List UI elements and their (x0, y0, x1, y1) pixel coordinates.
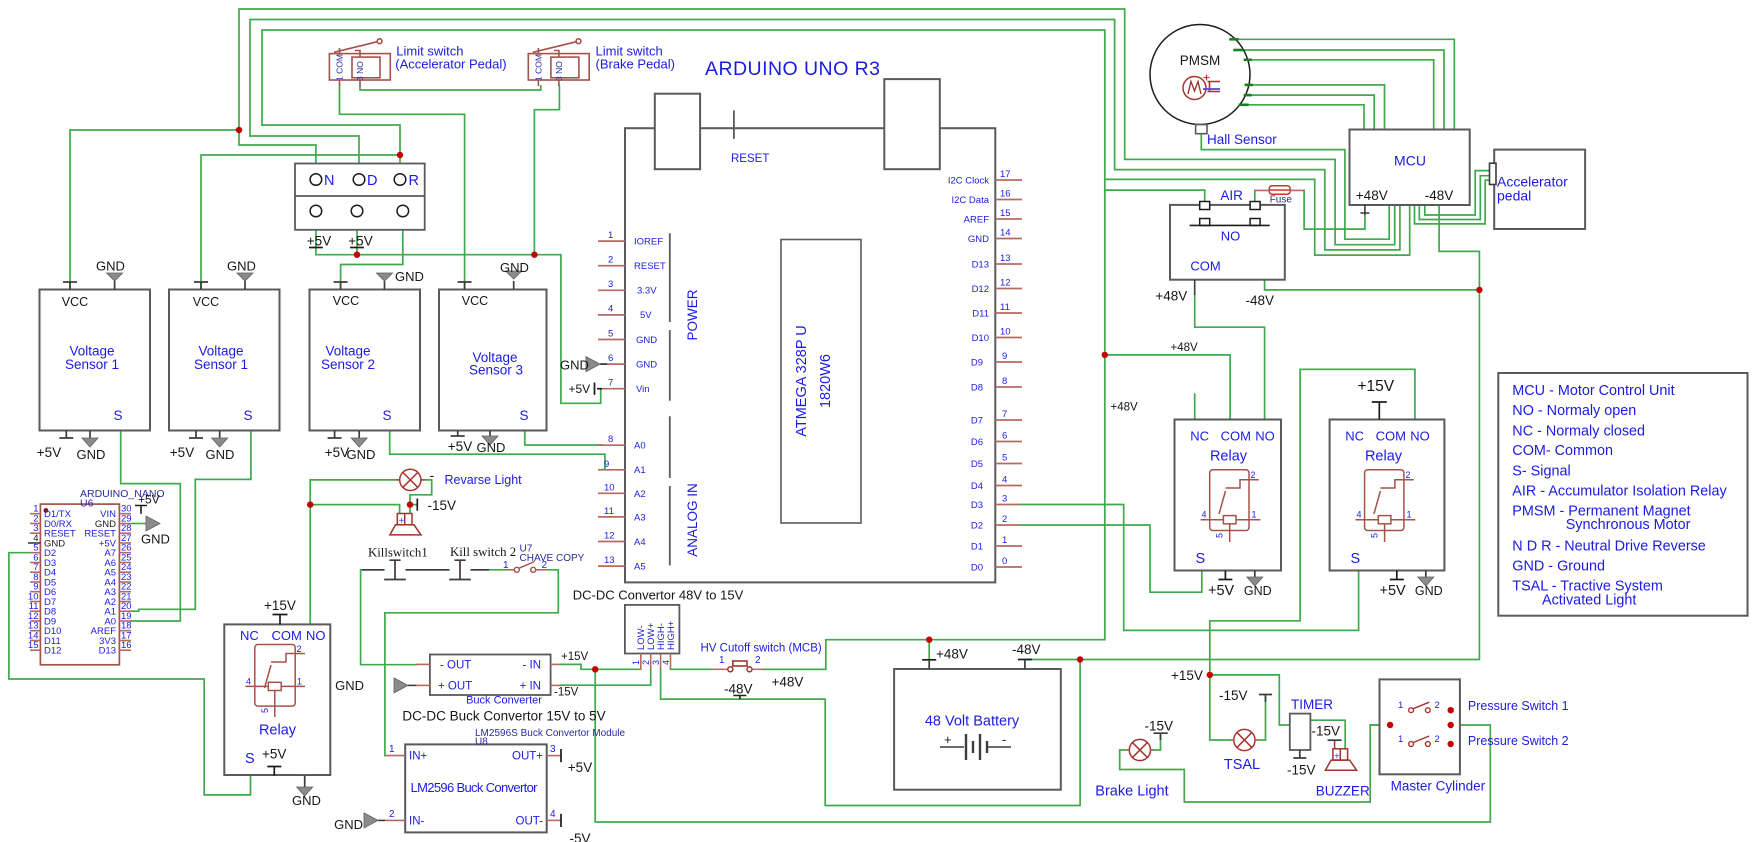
wire limit switch1 NO to switch2 COM (360, 86, 541, 90)
48 volt battery box (894, 669, 1061, 790)
uno right pin labels (948, 176, 990, 574)
svg-text:S: S (113, 408, 122, 423)
wire battery plus stem (928, 640, 930, 660)
svg-text:2: 2 (755, 655, 761, 666)
GND symbol below relay1 (297, 776, 313, 796)
svg-text:+5V: +5V (1380, 583, 1407, 599)
svg-text:I2C Data: I2C Data (952, 195, 990, 206)
accelerator pedal box (1494, 150, 1585, 229)
wire PMSM phase2 to MCU (1244, 50, 1444, 130)
svg-text:GND: GND (347, 447, 376, 462)
svg-text:D10: D10 (972, 333, 989, 344)
wire nano D2 to relay1 S (9, 553, 251, 795)
svg-text:DC-DC Buck Convertor 15V to 5V: DC-DC Buck Convertor 15V to 5V (402, 709, 605, 724)
wire +48V bus branch to AIR terminal1 (1105, 190, 1205, 203)
svg-text:2: 2 (1435, 700, 1440, 711)
uno right pin stubs (995, 180, 1022, 567)
svg-text:S: S (1196, 551, 1206, 567)
voltage sensor 3 box (310, 290, 421, 431)
relay2 symbol (1201, 470, 1261, 542)
wire killswitch2 to U7 (471, 569, 507, 571)
svg-text:+15V: +15V (264, 598, 296, 613)
svg-text:1820W6: 1820W6 (818, 354, 834, 408)
sensor2 VCC pin (194, 282, 208, 290)
wire DC-DC pin2 to buck +IN (560, 669, 650, 685)
svg-text:LM2596 Buck Convertor: LM2596 Buck Convertor (411, 780, 539, 795)
svg-text:GND: GND (477, 440, 506, 455)
svg-text:NC - Normaly closed: NC - Normaly closed (1512, 424, 1645, 440)
-48V tick on wire (733, 696, 746, 700)
wire U7 pin2 to LM2596 IN+ (385, 570, 558, 756)
TIMER box (1290, 714, 1311, 750)
junction dot +5V brake switch (531, 252, 537, 258)
+5V flag at uno Vin (595, 383, 603, 395)
-15V flag at brake light (1153, 733, 1167, 740)
svg-text:IN+: IN+ (409, 751, 428, 763)
svg-text:AIR - Accumulator Isolation Re: AIR - Accumulator Isolation Relay (1512, 484, 1727, 500)
svg-text:5: 5 (260, 708, 270, 713)
svg-text:OUT-: OUT- (516, 816, 544, 828)
GND flag at buck +OUT (394, 678, 416, 693)
svg-text:GND: GND (334, 817, 363, 832)
uno right pin numbers (1000, 169, 1011, 567)
GND flag at LM2596 IN- (364, 813, 385, 828)
voltage sensor 4 box (439, 290, 547, 431)
svg-text:3: 3 (550, 744, 556, 755)
relay1 symbol (245, 645, 305, 718)
relay3 GND symbol below (1418, 571, 1434, 587)
svg-text:U6: U6 (80, 498, 94, 510)
svg-text:A5: A5 (634, 562, 646, 573)
svg-text:2: 2 (389, 809, 395, 820)
svg-text:+5V: +5V (262, 747, 286, 762)
svg-text:NC: NC (1190, 429, 1209, 444)
svg-text:14: 14 (1000, 228, 1011, 239)
PMSM circle (1150, 25, 1250, 125)
svg-text:1: 1 (1398, 700, 1403, 711)
svg-text:ATMEGA 328P U: ATMEGA 328P U (794, 325, 810, 436)
svg-text:+48V: +48V (1171, 342, 1199, 354)
wire sensor2 VCC to R junction (201, 155, 400, 288)
svg-text:1 COM: 1 COM (534, 54, 544, 81)
+5V bar inside relay1 (267, 767, 281, 776)
GND flag at nano pin29 (131, 516, 160, 531)
svg-text:pedal: pedal (1497, 188, 1531, 204)
switch U7 (507, 562, 547, 573)
svg-text:GND: GND (77, 447, 106, 462)
wire reverse light lamp minus to -15V and speaker pin2 (410, 480, 432, 513)
+5V power bar NDR1 (309, 247, 323, 249)
svg-text:17: 17 (1000, 169, 1011, 180)
nano pin4 GND stub black (28, 542, 40, 544)
svg-text:+48V: +48V (1155, 289, 1187, 304)
svg-text:GND - Ground: GND - Ground (1512, 559, 1605, 575)
sensor1 GND symbol bottom (82, 438, 98, 447)
svg-text:+5V: +5V (138, 493, 160, 507)
svg-text:Relay: Relay (259, 723, 297, 739)
svg-text:R: R (409, 173, 419, 189)
arduino uno USB connector (655, 94, 700, 170)
svg-text:2: 2 (608, 255, 613, 266)
svg-text:IN-: IN- (409, 816, 425, 828)
svg-text:10: 10 (1000, 327, 1011, 338)
hall sensor square (1196, 125, 1207, 134)
svg-text:5V: 5V (640, 310, 652, 321)
wire busC top (+48V bus) (262, 30, 1105, 669)
svg-text:HV Cutoff switch (MCB): HV Cutoff switch (MCB) (701, 643, 822, 655)
relay2 +5V flag below (1218, 571, 1232, 580)
wire TSAL right to -15V flag (1255, 698, 1266, 741)
svg-text:(Accelerator Pedal): (Accelerator Pedal) (395, 57, 506, 72)
svg-text:COM: COM (272, 628, 302, 643)
wire +5V net NDR to UNO Vin (316, 217, 601, 404)
svg-text:Relay: Relay (1365, 449, 1403, 465)
svg-text:Kill switch 2: Kill switch 2 (450, 545, 516, 559)
svg-text:-15V: -15V (1219, 688, 1248, 703)
sensor1 GND symbol top (107, 273, 123, 281)
sensor1 GND pin bottom (89, 431, 91, 439)
junction dot R column (397, 152, 403, 158)
wire NDR bottom2 +5V stem (356, 217, 358, 255)
svg-text:6: 6 (608, 353, 613, 364)
svg-text:8: 8 (1002, 376, 1007, 387)
wire pedal W1 to MCU pin G (1425, 171, 1490, 215)
uno power group bar (669, 233, 671, 401)
AIR terminals (1200, 202, 1260, 226)
svg-text:D13: D13 (972, 260, 989, 271)
svg-text:Brake Light: Brake Light (1095, 784, 1168, 800)
reverse light speaker symbol (390, 514, 421, 535)
svg-text:15: 15 (28, 640, 39, 651)
svg-text:A1: A1 (634, 465, 646, 476)
svg-text:ARDUINO UNO R3: ARDUINO UNO R3 (705, 58, 880, 80)
svg-text:A4: A4 (634, 537, 646, 548)
svg-text:+ OUT: + OUT (438, 681, 472, 693)
svg-text:1 COM: 1 COM (335, 54, 345, 81)
svg-text:+: + (1334, 752, 1340, 763)
atmega inner box (781, 240, 861, 524)
wire fuse right to MCU +48V pin (1304, 190, 1365, 229)
svg-text:-48V: -48V (724, 682, 753, 697)
svg-text:+5V: +5V (325, 445, 349, 460)
sensor3 GND symbol bottom (351, 438, 367, 447)
AIR COM pin (1194, 280, 1196, 295)
wire TIMER right to buzzer (1310, 720, 1346, 749)
svg-text:Hall Sensor: Hall Sensor (1207, 132, 1277, 147)
svg-text:Sensor 2: Sensor 2 (321, 357, 375, 372)
svg-text:+5V: +5V (170, 445, 194, 460)
uno left pin numbers (604, 230, 615, 566)
svg-text:GND: GND (95, 519, 116, 530)
svg-text:Master Cylinder: Master Cylinder (1391, 779, 1486, 794)
svg-text:7: 7 (1002, 409, 1007, 420)
svg-text:A2: A2 (634, 489, 646, 500)
svg-text:5: 5 (1215, 533, 1225, 538)
sensor2 GND pin bottom (219, 431, 221, 439)
svg-text:(Brake Pedal): (Brake Pedal) (596, 57, 675, 72)
svg-text:+5V: +5V (569, 382, 591, 396)
wire +48V bus branch y179.5 to MCU pin D (1105, 179, 1410, 255)
voltage sensor 1 box (40, 290, 151, 431)
wire PMSM phase3 to MCU (1252, 60, 1434, 130)
svg-text:S: S (519, 408, 528, 423)
svg-text:9: 9 (604, 459, 609, 470)
MCU +48V pin stub (1360, 205, 1369, 215)
svg-text:+5V: +5V (568, 760, 592, 775)
svg-text:GND: GND (636, 360, 657, 371)
+5V flag at nano VIN (135, 506, 147, 514)
master cylinder box (1380, 679, 1460, 774)
PMSM motor plus/minus (1204, 75, 1210, 81)
svg-text:+5V: +5V (37, 445, 61, 460)
arduino nano body (40, 504, 119, 665)
junction dot master cylinder left (1387, 722, 1393, 728)
wire brake light to master cylinder (1120, 725, 1381, 802)
killswitch lead segments gray (362, 569, 489, 571)
svg-text:S: S (1351, 551, 1361, 567)
svg-text:D1: D1 (971, 542, 983, 553)
svg-text:S: S (245, 751, 255, 767)
svg-text:GND: GND (141, 532, 170, 547)
svg-text:2: 2 (542, 560, 548, 571)
svg-text:Relay: Relay (1210, 449, 1248, 465)
wire PMSM hall1 to MCU (1253, 85, 1385, 130)
svg-text:-5V: -5V (569, 831, 590, 842)
svg-text:N D R - Neutral Drive Reverse: N D R - Neutral Drive Reverse (1512, 539, 1706, 555)
killswitch2 symbol (449, 560, 471, 579)
svg-text:ANALOG IN: ANALOG IN (685, 483, 700, 557)
svg-text:13: 13 (1000, 253, 1011, 264)
wire sensor2 S to nano A1 (131, 431, 251, 612)
sensor3 GND pin top (384, 281, 386, 290)
svg-text:+48V: +48V (1356, 188, 1388, 203)
sensor4 VCC pin (458, 282, 472, 290)
battery pins into box (929, 660, 1025, 670)
junction dot +48V relay2 (1102, 352, 1108, 358)
svg-text:Sensor 1: Sensor 1 (194, 357, 248, 372)
svg-text:4: 4 (608, 304, 613, 315)
svg-text:+15V: +15V (1171, 668, 1203, 683)
svg-text:+5V: +5V (307, 234, 331, 249)
PMSM motor icon (1183, 77, 1220, 100)
svg-text:1: 1 (1398, 734, 1403, 745)
junction dot -48V right (1476, 287, 1482, 293)
nano left labels (44, 509, 76, 657)
arduino uno power jack (884, 79, 940, 169)
svg-text:GND: GND (1244, 584, 1272, 598)
junction dot +5V bar2 (354, 252, 360, 258)
svg-text:A3: A3 (634, 513, 646, 524)
sensor4 GND pin bottom (489, 431, 491, 437)
svg-text:AIR: AIR (1220, 188, 1243, 203)
wire PMSM hall3 to MCU (1249, 105, 1364, 130)
svg-text:GND: GND (96, 259, 125, 274)
junction dot DC-DC pin1 (592, 666, 598, 672)
sensor2 +5V pin bottom (189, 431, 203, 439)
sensor1 +5V pin bottom (59, 431, 73, 439)
svg-text:4: 4 (550, 809, 556, 820)
wire busA top (N net to MCU pin A) (239, 9, 1395, 245)
svg-text:2: 2 (1251, 470, 1256, 480)
wire +15V junction to TIMER (1210, 675, 1291, 725)
sensor2 GND symbol bottom (212, 438, 228, 447)
svg-text:D0: D0 (971, 563, 983, 574)
svg-text:GND: GND (292, 793, 321, 808)
DC-DC 48 to 15 block (625, 605, 680, 654)
voltage sensor 2 box (169, 290, 280, 431)
junction dot battery minus bus (1077, 656, 1083, 662)
svg-text:-: - (430, 467, 435, 483)
svg-text:LM2596S Buck Convertor Module: LM2596S Buck Convertor Module (475, 728, 626, 739)
svg-text:HIGH+: HIGH+ (666, 620, 677, 650)
NDR circle bottom1 (310, 205, 322, 217)
nano pin numbers (28, 504, 39, 652)
wire limit switch2 NO to UNO A1 net (534, 86, 559, 255)
svg-text:2: 2 (1406, 470, 1411, 480)
sensor3 VCC pin (334, 282, 348, 290)
wire busB branch to D column (250, 136, 359, 174)
wire PMSM hall2 to MCU (1252, 95, 1374, 129)
svg-text:1: 1 (503, 560, 509, 571)
svg-text:S: S (382, 408, 391, 423)
svg-text:GND: GND (500, 260, 529, 275)
wire master cylinder internals (1370, 710, 1408, 725)
arduino uno body (625, 128, 995, 582)
wire busC branch to R column (262, 125, 400, 174)
nano pin1 dot (44, 508, 49, 513)
svg-text:GND: GND (227, 259, 256, 274)
wire AIR NO to -48V junction (1265, 281, 1480, 290)
wire pedal W2 to MCU pin F (1419, 176, 1489, 220)
svg-text:RESET: RESET (731, 153, 769, 165)
svg-text:COM- Common: COM- Common (1512, 443, 1613, 459)
nano right labels (84, 509, 116, 657)
svg-text:CHAVE COPY: CHAVE COPY (520, 553, 585, 564)
AIR box (1170, 205, 1285, 280)
svg-text:4: 4 (1357, 510, 1362, 520)
svg-text:U8: U8 (475, 737, 488, 748)
wire brake light right to -15V flag (1151, 735, 1161, 750)
NDR circle bottom3 (397, 205, 409, 217)
svg-text:Fuse: Fuse (1270, 195, 1293, 206)
svg-text:- OUT: - OUT (440, 660, 471, 672)
svg-text:S- Signal: S- Signal (1512, 464, 1570, 480)
svg-text:D7: D7 (971, 416, 983, 427)
wire -48V bus battery minus to MCU pin H (1025, 206, 1480, 660)
svg-text:1: 1 (389, 744, 395, 755)
svg-text:1: 1 (719, 655, 725, 666)
svg-text:D5: D5 (971, 459, 983, 470)
sensor4 GND symbol top (506, 271, 522, 279)
svg-text:3: 3 (651, 660, 661, 665)
svg-text:3 NO: 3 NO (355, 61, 365, 81)
svg-text:Synchronous Motor: Synchronous Motor (1566, 517, 1691, 533)
NDR circle N (310, 174, 322, 186)
svg-text:6: 6 (1002, 431, 1007, 442)
svg-text:NO: NO (306, 628, 326, 643)
svg-text:4: 4 (33, 533, 38, 544)
svg-text:NO: NO (1410, 429, 1430, 444)
NDR circle D (353, 174, 365, 186)
nano right pin stubs (119, 514, 131, 651)
svg-text:VCC: VCC (193, 295, 219, 309)
relay1 module box (224, 624, 330, 775)
svg-text:D6: D6 (971, 437, 983, 448)
+5V bar at LM2596 OUT+ (560, 749, 562, 762)
svg-text:1: 1 (297, 677, 302, 687)
sensor3 GND pin bottom (358, 431, 360, 439)
wire limit switch1 COM to sensor4 VCC (340, 86, 465, 288)
svg-text:13: 13 (604, 555, 615, 566)
master cylinder switch row2 (1409, 736, 1431, 746)
svg-text:2: 2 (641, 660, 651, 665)
svg-text:-48V: -48V (1246, 293, 1275, 308)
svg-text:5: 5 (1370, 533, 1380, 538)
svg-text:48 Volt Battery: 48 Volt Battery (925, 714, 1020, 730)
svg-text:2: 2 (297, 644, 302, 654)
+5V power bar NDR2 (350, 247, 364, 249)
svg-text:MCU: MCU (1394, 153, 1426, 169)
svg-text:GND: GND (335, 678, 364, 693)
brake light lamp (1126, 739, 1154, 760)
svg-text:PMSM: PMSM (1180, 53, 1221, 68)
reverse light lamp (397, 469, 425, 490)
-5V bar at LM2596 OUT- (560, 814, 562, 827)
-15V flag at TSAL (1259, 695, 1272, 703)
sensor4 +5V pin bottom (451, 431, 465, 437)
battery minus bar (1018, 659, 1032, 661)
nano left pin stubs (30, 514, 40, 651)
svg-text:GND: GND (1415, 584, 1443, 598)
svg-text:7: 7 (608, 378, 613, 389)
wire UNO D3 to relay3 S (1020, 505, 1359, 631)
svg-text:DC-DC Convertor 48V to 15V: DC-DC Convertor 48V to 15V (573, 588, 744, 603)
wire MCB pin2 to +48V bus (764, 668, 826, 670)
wire NDR bottom3 to sensor3 VCC (341, 217, 403, 288)
PMSM terminal ticks (1229, 39, 1253, 105)
svg-text:11: 11 (604, 506, 614, 517)
svg-text:-15V: -15V (554, 687, 579, 699)
svg-text:MCU - Motor Control Unit: MCU - Motor Control Unit (1512, 383, 1674, 399)
svg-text:+ IN: + IN (520, 681, 541, 693)
svg-text:GND: GND (560, 358, 589, 373)
svg-text:4: 4 (1002, 475, 1007, 486)
junction dots master cylinder right (1448, 707, 1454, 713)
sensor2 GND symbol top (237, 273, 253, 281)
svg-text:16: 16 (1000, 189, 1011, 200)
junction dot busA/sensor1 (236, 127, 242, 133)
svg-text:NO: NO (1255, 429, 1275, 444)
svg-text:4: 4 (661, 660, 671, 665)
+48V bar at battery plus (922, 659, 936, 661)
wire PMSM phase1 to MCU (1239, 39, 1455, 129)
junction dot +15V (1207, 672, 1213, 678)
svg-text:+48V: +48V (772, 675, 804, 690)
sensor1 VCC pin (63, 282, 77, 290)
svg-text:NC: NC (240, 628, 259, 643)
svg-text:POWER: POWER (685, 289, 700, 340)
svg-text:5: 5 (608, 329, 613, 340)
svg-text:D: D (367, 173, 377, 189)
svg-text:D9: D9 (971, 358, 983, 369)
NDR circle R (394, 174, 406, 186)
HV cutoff switch MCB (712, 661, 764, 672)
fuse leads (1255, 189, 1304, 191)
svg-text:Killswitch1: Killswitch1 (368, 546, 428, 560)
svg-text:D8: D8 (971, 383, 983, 394)
wire buck -IN +15V to DC-DC pin1 and down bus (560, 664, 640, 669)
svg-text:GND: GND (636, 335, 657, 346)
